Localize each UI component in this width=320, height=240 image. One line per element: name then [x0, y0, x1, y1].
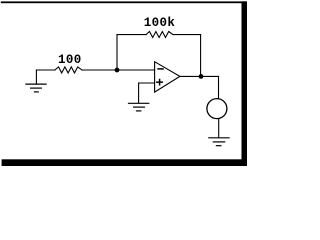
wire down to source V1: [218, 76, 220, 98]
wire feedback up from node A: [116, 35, 118, 70]
resistor R2: [146, 32, 173, 38]
resistor R1: [55, 67, 82, 73]
border frame bottom: [2, 159, 247, 166]
wire GND1 to R1: [36, 69, 55, 71]
ground GND1 (left): [26, 70, 46, 92]
wire feedback top right: [173, 34, 201, 36]
op-amp U1 triangle: [155, 62, 180, 92]
wire feedback down to output node: [200, 35, 202, 77]
ground GND2 (below op-amp): [129, 103, 149, 111]
wire R1 to op-amp inverting input (through node A): [82, 69, 155, 71]
source V1 circle: [207, 99, 227, 119]
svg-text:100: 100: [58, 53, 82, 67]
node A junction dot: [115, 68, 120, 73]
op-amp U1 minus pin mark: [158, 68, 163, 70]
border frame top: [1, 1, 247, 3]
wire op-amp non-inverting input: [139, 82, 155, 84]
wire down to GND2: [138, 83, 140, 103]
wire feedback top left: [117, 34, 146, 36]
ground GND3 (bottom right): [209, 138, 229, 146]
node OUT junction dot: [199, 74, 204, 79]
border frame right: [242, 1, 248, 166]
wire op-amp output to corner: [180, 75, 219, 77]
op-amp U1 plus pin mark: [157, 80, 163, 85]
wire source V1 to GND3: [218, 119, 220, 138]
svg-text:100k: 100k: [144, 16, 176, 30]
